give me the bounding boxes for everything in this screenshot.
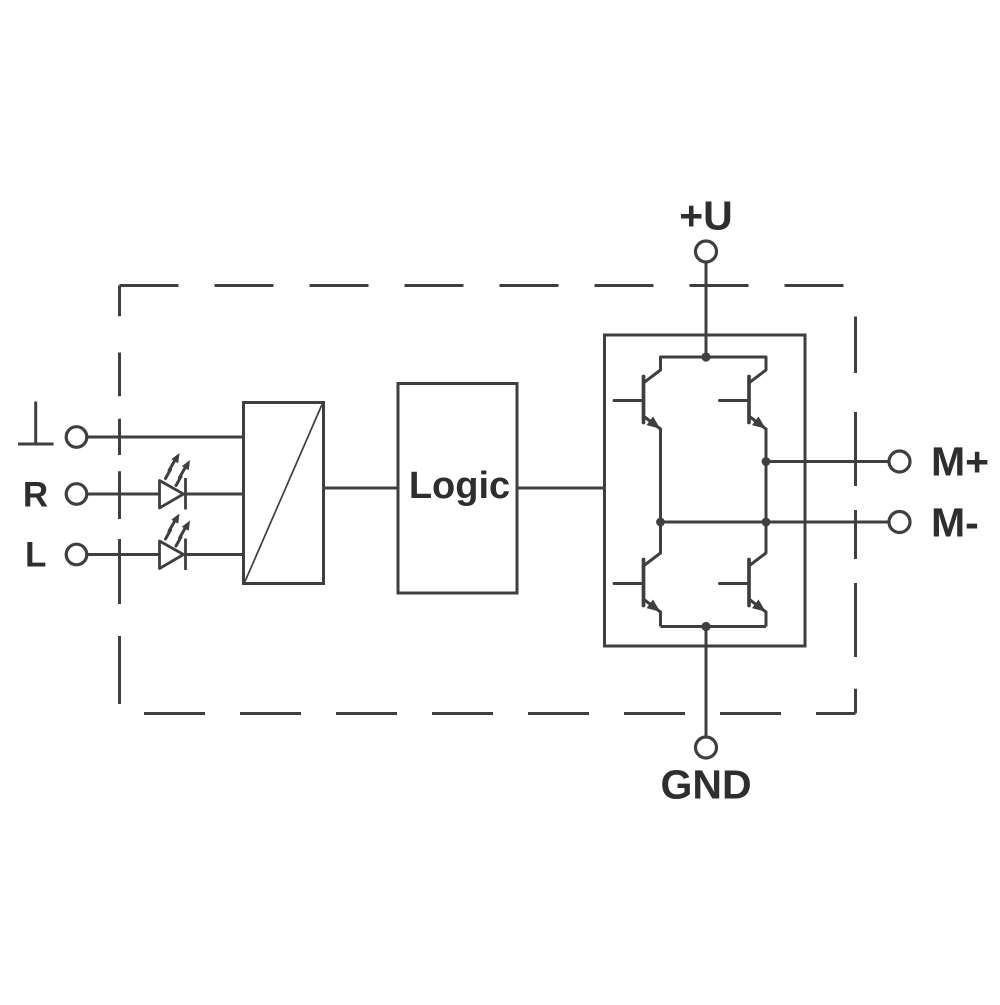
svg-text:M+: M+ [931,439,989,485]
wire +U supply [705,263,708,358]
wire logic to bridge [517,487,605,490]
optocoupler U1 diagonal [245,405,322,582]
wire ground input to coupler [87,436,244,439]
node +U junction [701,352,710,361]
top supply rail [661,356,767,359]
terminal circle L [66,544,87,565]
LED D2 (L line) [160,539,186,571]
wire coupler to logic [324,487,399,490]
svg-text:M-: M- [931,500,979,546]
dashed enclosure left edge [118,286,121,714]
right lower emitter wire [765,612,768,627]
dashed enclosure top edge [120,284,856,287]
optocoupler U1 box [244,403,324,584]
dashed enclosure right edge [854,286,857,714]
terminal circle ground input [66,427,87,448]
terminal circle GND [696,737,717,758]
LED D2 emission arrows [166,514,191,547]
terminal circle M- [889,512,910,533]
wire R to coupler [87,493,244,496]
wire L to coupler [87,553,244,556]
wire M- [661,521,889,524]
LED D1 (R line) [160,478,186,510]
transistor Q3 [614,540,661,612]
logic block U2 [398,384,517,594]
right branch wire [765,430,768,552]
node GND junction [701,622,710,631]
terminal circle R [66,484,87,505]
svg-text:R: R [23,476,48,515]
node M- junction right [762,518,771,527]
wire M+ [766,460,889,463]
bottom ground rail [661,625,767,628]
H-bridge block box [605,335,806,646]
dashed enclosure bottom edge [120,712,856,715]
left branch wire [659,430,662,552]
svg-text:Logic: Logic [409,465,510,507]
transistor Q2 [720,357,767,429]
terminal circle M+ [889,451,910,472]
svg-text:GND: GND [660,762,751,808]
terminal circle +U [696,241,717,262]
svg-text:L: L [25,536,46,575]
ground symbol [18,402,54,445]
svg-text:+U: +U [679,193,733,239]
left lower emitter wire [659,612,662,627]
node M- junction left [656,518,665,527]
node M+ junction [762,457,771,466]
wire GND [705,627,708,738]
LED D1 emission arrows [166,453,191,486]
transistor Q4 [720,540,767,612]
transistor Q1 [614,357,661,429]
